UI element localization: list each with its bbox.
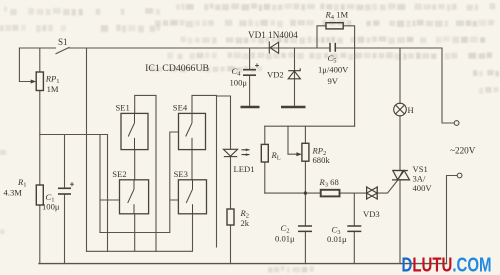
- svg-text:H: H: [408, 105, 414, 115]
- svg-text:IC1 CD4066UB: IC1 CD4066UB: [145, 63, 209, 74]
- svg-text:680k: 680k: [313, 155, 331, 165]
- svg-text:3A/: 3A/: [413, 174, 427, 184]
- svg-text:9V: 9V: [328, 76, 339, 86]
- svg-text:VS1: VS1: [413, 164, 428, 174]
- svg-text:DLUTU.COM: DLUTU.COM: [402, 254, 492, 275]
- svg-text:SE4: SE4: [173, 103, 188, 113]
- svg-text:VD2: VD2: [267, 70, 284, 80]
- svg-text:LED1: LED1: [234, 164, 255, 174]
- svg-text:0.01μ: 0.01μ: [327, 234, 347, 244]
- svg-text:1M: 1M: [47, 84, 59, 94]
- svg-text:0.01μ: 0.01μ: [275, 234, 295, 244]
- svg-text:~220V: ~220V: [450, 146, 476, 156]
- svg-text:1μ/400V: 1μ/400V: [318, 65, 349, 75]
- svg-text:SE2: SE2: [112, 169, 126, 179]
- svg-text:SE1: SE1: [116, 103, 130, 113]
- svg-text:VD3: VD3: [363, 209, 380, 219]
- svg-text:2k: 2k: [241, 218, 250, 228]
- svg-text:R4 1M: R4 1M: [325, 10, 349, 22]
- svg-text:VD1 1N4004: VD1 1N4004: [248, 30, 298, 40]
- svg-text:R3 68: R3 68: [319, 177, 339, 189]
- svg-text:SE3: SE3: [174, 169, 188, 179]
- svg-text:400V: 400V: [413, 183, 433, 193]
- svg-text:100μ: 100μ: [42, 202, 60, 212]
- svg-text:100μ: 100μ: [230, 78, 248, 88]
- svg-text:S1: S1: [58, 37, 68, 47]
- svg-text:4.3M: 4.3M: [4, 188, 23, 198]
